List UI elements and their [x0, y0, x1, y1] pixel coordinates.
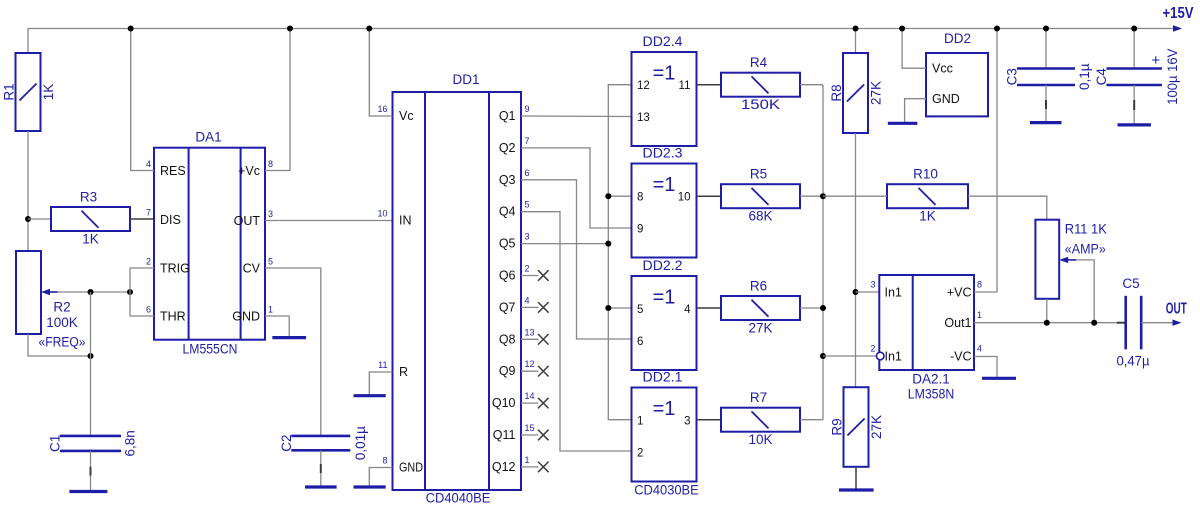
svg-text:TRIG: TRIG: [160, 262, 190, 276]
wire to C1: [90, 292, 92, 436]
ground DA1: [272, 336, 306, 339]
capacitor C3: [1017, 67, 1075, 70]
svg-text:R5: R5: [750, 167, 767, 182]
wire DD2 GND down: [905, 99, 926, 124]
DA1 inner lines: [188, 148, 190, 340]
svg-text:Q10: Q10: [492, 396, 516, 410]
wire R8 bottom to R9 top: [855, 133, 857, 387]
svg-text:13: 13: [637, 112, 650, 124]
potentiometer R11: [1035, 220, 1059, 299]
ground -VC: [982, 377, 1016, 380]
resistor R4: [721, 73, 800, 97]
no-connect X on Q9: [538, 366, 549, 377]
svg-text:R2: R2: [53, 300, 70, 315]
wire Q11 stub: [521, 434, 539, 436]
wire RES to rail: [131, 29, 154, 171]
svg-text:0,1µ: 0,1µ: [1077, 63, 1092, 90]
svg-text:DA2.1: DA2.1: [912, 372, 950, 387]
svg-text:6: 6: [637, 336, 643, 348]
ground C3: [1030, 121, 1062, 124]
svg-text:=1: =1: [653, 63, 676, 85]
wire +15V power rail: [28, 28, 1175, 30]
svg-text:11: 11: [378, 360, 387, 370]
no-connect X on Q11: [538, 430, 549, 441]
C4 lead tick: [1133, 100, 1135, 110]
svg-text:R: R: [399, 365, 408, 379]
svg-text:27K: 27K: [748, 321, 772, 336]
svg-text:R11 1K: R11 1K: [1065, 222, 1107, 237]
node bus/R5/R10: [820, 193, 826, 199]
svg-text:DA1: DA1: [195, 130, 221, 145]
svg-text:1: 1: [637, 416, 643, 428]
svg-text:Q3: Q3: [499, 173, 516, 187]
wire R1 top to rail: [27, 29, 29, 54]
svg-text:4: 4: [977, 344, 982, 354]
DA2.1 inverter circle: [876, 352, 884, 360]
wire R11 bottom: [1046, 299, 1048, 323]
ground DD1 GND: [354, 485, 386, 488]
wire R9 bottom: [855, 467, 857, 490]
wire Q10 stub: [521, 402, 539, 404]
svg-text:16: 16: [377, 104, 387, 114]
wire C4 top: [1133, 29, 1135, 69]
wire DA1 GND down: [265, 316, 289, 338]
svg-text:1K: 1K: [82, 232, 99, 247]
node bus/Q5: [605, 241, 611, 247]
wire Q7 stub: [521, 306, 539, 308]
XOR gate DD2.2: [632, 276, 697, 370]
svg-text:11: 11: [679, 80, 691, 92]
svg-text:3: 3: [684, 416, 690, 428]
svg-text:2: 2: [870, 344, 875, 354]
svg-text:In1: In1: [885, 286, 902, 300]
node C4 rail junction: [1131, 26, 1137, 32]
DA2.1 inner line: [912, 275, 914, 370]
no-connect X on Q12: [538, 462, 549, 473]
svg-text:R8: R8: [829, 84, 844, 101]
resistor R7: [721, 408, 800, 432]
node R11 bottom junction: [1044, 320, 1050, 326]
wire Q1 to DD2.4 pin13: [521, 115, 632, 118]
wire C1 bottom: [90, 451, 92, 492]
svg-text:1: 1: [525, 455, 530, 465]
svg-text:4: 4: [146, 159, 151, 169]
svg-text:OUT: OUT: [234, 214, 261, 228]
wire gate output stub y=196.2: [697, 195, 722, 197]
resistor R9: [844, 387, 869, 467]
resistor R5: [721, 184, 800, 208]
XOR gate DD2.3: [632, 164, 697, 258]
svg-text:C3: C3: [1005, 68, 1020, 85]
svg-text:DD2.3: DD2.3: [643, 146, 683, 161]
wire DD1 R to ground: [369, 372, 392, 396]
svg-text:DIS: DIS: [160, 213, 181, 227]
wire TRIG/THR tie: [130, 268, 154, 316]
svg-text:6,8n: 6,8n: [123, 430, 138, 456]
node C3 rail junction: [1043, 26, 1049, 32]
svg-text:CD4030BE: CD4030BE: [634, 483, 699, 498]
no-connect X on Q10: [538, 398, 549, 409]
svg-text:«FREQ»: «FREQ»: [39, 335, 86, 350]
node R8 rail junction: [853, 26, 859, 32]
wire C2 bottom: [320, 450, 322, 487]
svg-text:+: +: [1151, 52, 1160, 69]
DD1 inner lines: [424, 92, 426, 490]
svg-text:IN: IN: [399, 214, 412, 228]
svg-text:DD2: DD2: [944, 31, 971, 46]
node bus/pin8: [605, 193, 611, 199]
svg-text:C1: C1: [48, 435, 63, 452]
svg-text:1: 1: [268, 305, 273, 315]
wire Q8 stub: [521, 338, 539, 340]
wire junction to In1 pin3: [856, 291, 880, 293]
node bus to op-amp In: [820, 353, 826, 359]
svg-text:GND: GND: [399, 461, 423, 475]
wire R3 right to DIS: [130, 218, 154, 220]
svg-text:DD1: DD1: [452, 72, 479, 87]
svg-text:Q8: Q8: [499, 332, 516, 346]
svg-text:Q4: Q4: [499, 205, 516, 219]
wire Q12 stub: [521, 466, 539, 468]
ground R9: [839, 488, 874, 491]
wire C4 bottom: [1133, 85, 1135, 125]
node R1/R3/R2 junction: [25, 216, 31, 222]
svg-text:6: 6: [146, 305, 151, 315]
op-amp/timer DA1 box: [154, 148, 265, 340]
node R2 wiper/C1 junction: [88, 289, 94, 295]
svg-text:15: 15: [525, 423, 535, 433]
wire Q6 stub: [521, 275, 539, 277]
svg-text:LM358N: LM358N: [908, 387, 955, 402]
ground DD1 R pin: [354, 394, 386, 397]
svg-text:R9: R9: [830, 418, 845, 435]
svg-text:3: 3: [525, 232, 530, 242]
svg-text:+15V: +15V: [1163, 5, 1195, 22]
ground C4: [1118, 123, 1151, 126]
node R2 bottom junction: [88, 353, 94, 359]
R11 wiper arrow: [1059, 257, 1068, 263]
svg-text:2: 2: [525, 264, 530, 274]
svg-text:Vc: Vc: [399, 109, 414, 123]
XOR gate DD2.4: [632, 52, 697, 146]
svg-text:-VC: -VC: [950, 350, 972, 364]
node TRIG/THR junction: [127, 289, 133, 295]
op-amp DA2.1 box: [879, 275, 974, 370]
node bus/pin5: [605, 305, 611, 311]
svg-text:7: 7: [525, 136, 530, 146]
wire bus tap DD2.2 pin5: [608, 307, 631, 309]
svg-text:R6: R6: [750, 279, 767, 294]
svg-text:150K: 150K: [741, 97, 780, 112]
wire R10 right to R11 top: [968, 196, 1047, 220]
C3 lead tick: [1045, 100, 1047, 109]
wire gate output stub y=84.7: [697, 84, 722, 86]
wire +Vc to rail: [265, 29, 290, 171]
svg-text:12: 12: [637, 80, 650, 92]
node DD2 rail junction: [899, 26, 905, 32]
svg-text:100K: 100K: [46, 315, 78, 330]
svg-text:9: 9: [525, 104, 530, 114]
wire DD1 Vc to rail: [369, 29, 392, 117]
svg-text:RES: RES: [160, 164, 186, 178]
ground DD2: [888, 122, 918, 125]
wire summing bus vertical: [822, 85, 824, 420]
resistor R10: [887, 184, 968, 208]
wire gate output stub y=419.7: [697, 419, 722, 421]
wire R5 right to bus: [800, 195, 823, 197]
svg-text:Q9: Q9: [499, 364, 516, 378]
svg-text:CV: CV: [243, 262, 261, 276]
svg-text:8: 8: [637, 192, 643, 204]
wire R4 right to bus: [800, 84, 823, 86]
svg-text:In1: In1: [885, 350, 902, 364]
svg-text:27K: 27K: [869, 415, 884, 439]
svg-text:5: 5: [637, 304, 643, 316]
C2 lead tick: [320, 464, 322, 473]
svg-text:C4: C4: [1094, 68, 1109, 86]
svg-text:THR: THR: [160, 310, 186, 324]
power net +15V arrow: [1173, 25, 1182, 31]
svg-text:C5: C5: [1122, 276, 1139, 291]
C5 lead tick: [1117, 322, 1125, 324]
node +Vc rail junction: [287, 26, 293, 32]
svg-text:CD4040BE: CD4040BE: [426, 491, 491, 506]
wire Q2 to DD2.3 pin9: [521, 148, 632, 228]
wire gate output stub y=308: [697, 307, 722, 309]
no-connect X on Q8: [538, 334, 549, 345]
svg-text:DD2.4: DD2.4: [643, 34, 684, 49]
wire bus tap DD2.3 pin8: [608, 195, 631, 197]
node R8/R9/pin3 junction: [853, 289, 859, 295]
svg-text:«AMP»: «AMP»: [1065, 242, 1106, 257]
resistor R1: [16, 53, 41, 131]
svg-text:C2: C2: [279, 434, 294, 451]
svg-text:7: 7: [146, 208, 151, 218]
svg-text:1K: 1K: [41, 84, 56, 101]
svg-text:=1: =1: [653, 174, 676, 196]
svg-text:100µ 16V: 100µ 16V: [1165, 49, 1180, 105]
wire R2 bottom: [28, 334, 91, 356]
R2 wiper arrow: [41, 289, 50, 295]
svg-text:2: 2: [637, 448, 643, 460]
node bus/R6: [820, 305, 826, 311]
svg-text:Q1: Q1: [499, 109, 516, 123]
power box DD2: [926, 53, 988, 116]
wire Out1 to C5: [974, 322, 1126, 324]
wire -VC to ground: [974, 357, 997, 379]
node +VC rail junction: [994, 26, 1000, 32]
svg-text:0,47µ: 0,47µ: [1117, 354, 1150, 369]
svg-text:Vcc: Vcc: [932, 62, 953, 76]
svg-text:+VC: +VC: [947, 286, 972, 300]
wire DD1 GND to ground: [369, 468, 392, 488]
svg-text:10K: 10K: [748, 432, 772, 447]
wire C5 to OUT: [1141, 322, 1174, 324]
wire Q4 to DD2.1 pin2: [521, 212, 632, 451]
wire gate input bus: [608, 85, 631, 420]
no-connect X on Q6: [538, 270, 549, 281]
wire Q5 to gate bus: [521, 243, 608, 245]
wire OUT to DD1 IN: [265, 220, 393, 222]
svg-text:Q11: Q11: [493, 428, 516, 442]
wire C3 bottom: [1045, 85, 1047, 123]
svg-text:12: 12: [525, 359, 535, 369]
svg-text:DD2.2: DD2.2: [643, 258, 683, 273]
wire Q9 stub: [521, 370, 539, 372]
svg-text:Q7: Q7: [499, 300, 516, 314]
svg-text:R3: R3: [80, 190, 97, 205]
C1 lead tick: [90, 467, 92, 476]
capacitor C2: [291, 435, 350, 438]
svg-text:3: 3: [870, 280, 875, 290]
svg-text:9: 9: [637, 224, 643, 236]
potentiometer R2: [16, 251, 41, 334]
svg-text:OUT: OUT: [1166, 301, 1187, 318]
svg-text:68K: 68K: [748, 209, 772, 224]
svg-text:6: 6: [525, 168, 530, 178]
svg-text:R1: R1: [2, 83, 17, 100]
svg-text:1K: 1K: [919, 209, 936, 224]
wire C3 top: [1045, 29, 1047, 69]
wire R11 wiper down: [1076, 260, 1094, 323]
svg-text:Q6: Q6: [499, 269, 516, 283]
node R11 wiper junction: [1091, 320, 1097, 326]
svg-text:4: 4: [684, 304, 691, 316]
svg-text:LM555CN: LM555CN: [183, 341, 238, 356]
wire bus to inverting input: [823, 355, 876, 357]
resistor R8: [843, 53, 868, 133]
wire +VC to rail: [974, 29, 997, 293]
svg-text:5: 5: [525, 200, 530, 210]
wire CV to C2: [265, 268, 321, 436]
wire R10 left: [823, 195, 887, 197]
svg-text:27K: 27K: [869, 81, 884, 105]
svg-text:=1: =1: [653, 398, 676, 420]
node DD1 Vc rail junction: [366, 26, 372, 32]
svg-text:4: 4: [525, 295, 530, 305]
svg-text:GND: GND: [232, 310, 260, 324]
svg-text:3: 3: [268, 209, 273, 219]
svg-text:2: 2: [146, 257, 151, 267]
wire R3 left: [28, 218, 51, 220]
svg-text:10: 10: [377, 209, 387, 219]
svg-text:1: 1: [977, 310, 982, 320]
resistor R6: [721, 296, 800, 320]
XOR gate DD2.1: [632, 388, 697, 482]
svg-text:8: 8: [977, 280, 982, 290]
capacitor C1: [60, 435, 121, 438]
counter DD1 box: [393, 92, 522, 490]
ground C2: [305, 485, 337, 488]
svg-text:+Vc: +Vc: [238, 164, 260, 178]
svg-text:13: 13: [525, 327, 535, 337]
ground C1: [69, 490, 107, 493]
svg-text:8: 8: [382, 456, 387, 466]
wire R2 wiper row: [57, 291, 130, 293]
svg-text:=1: =1: [653, 287, 676, 309]
svg-text:R7: R7: [750, 390, 767, 405]
capacitor C5 plates: [1124, 296, 1127, 350]
svg-text:5: 5: [268, 257, 273, 267]
output arrow: [1173, 320, 1182, 326]
svg-text:GND: GND: [932, 92, 960, 106]
no-connect X on Q7: [538, 302, 549, 313]
svg-text:DD2.1: DD2.1: [643, 370, 683, 385]
wire DD2 Vcc to rail: [902, 29, 926, 69]
svg-text:Q5: Q5: [499, 237, 516, 251]
svg-text:Out1: Out1: [944, 316, 971, 330]
resistor R3: [51, 207, 130, 231]
wire Q3 to DD2.2 pin6: [521, 180, 632, 339]
svg-text:Q2: Q2: [499, 141, 516, 155]
svg-text:R4: R4: [750, 55, 768, 70]
wire R8 top to rail: [855, 29, 857, 54]
wire R1 bottom to R2 top: [27, 131, 29, 251]
svg-text:10: 10: [678, 192, 691, 204]
svg-text:R10: R10: [913, 167, 938, 182]
capacitor C4: [1106, 67, 1162, 70]
wire R7 right to bus: [800, 419, 823, 421]
svg-text:0,01µ: 0,01µ: [353, 426, 368, 460]
svg-text:14: 14: [525, 391, 535, 401]
wire R6 right to bus: [800, 307, 823, 309]
node RES rail junction: [128, 26, 134, 32]
svg-text:8: 8: [268, 159, 273, 169]
svg-text:Q12: Q12: [492, 460, 516, 474]
